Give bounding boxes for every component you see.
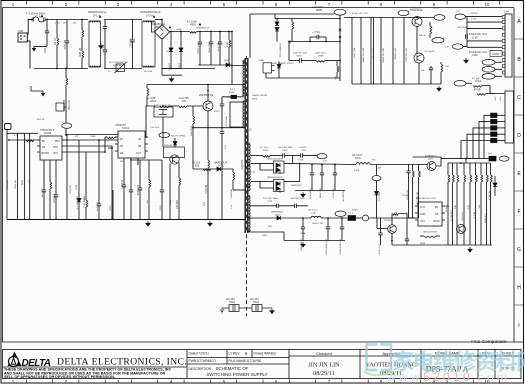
capacitor C11 (98, 140, 100, 204)
connector CN7 (5, 124, 12, 130)
wire (376, 218, 378, 229)
wire N line (34, 68, 88, 70)
resistor R05A (190, 32, 197, 34)
capacitor C15 (161, 160, 163, 190)
svg-text:4.2.7: 4.2.7 (230, 89, 236, 91)
svg-text:F1:A: F1:A (35, 14, 41, 18)
svg-text:SBR10U45x(F/F): SBR10U45x(F/F) (267, 159, 283, 161)
resistor divider (463, 163, 465, 175)
resistor R906 (192, 106, 194, 116)
svg-text:FB: FB (138, 139, 141, 141)
svg-text:C4TC: C4TC (218, 166, 224, 168)
svg-text:C60 470uF: C60 470uF (457, 27, 468, 29)
svg-text:R8 1.2K: R8 1.2K (37, 119, 45, 121)
wire (467, 21, 502, 23)
resistor R70A (473, 86, 482, 88)
svg-text:PRO: PRO (55, 141, 60, 143)
diode D473 (278, 61, 280, 64)
svg-text:VCC: VCC (420, 221, 425, 223)
svg-text:I: I (518, 323, 519, 329)
wire (275, 18, 340, 20)
wire +5V out rail (413, 157, 442, 159)
svg-text:SWITCHING POWER SUPPLY: SWITCHING POWER SUPPLY (206, 372, 267, 377)
wire (187, 105, 203, 107)
svg-text:R9O3: R9O3 (214, 111, 220, 113)
svg-text:G: G (517, 247, 521, 253)
wire Q1 source (207, 111, 209, 160)
wire Q1 drain (207, 85, 209, 102)
wire (441, 158, 489, 160)
svg-text:TMPG45O2: TMPG45O2 (410, 8, 422, 10)
capacitor C30 (430, 66, 432, 68)
capacitor C907 (43, 160, 45, 190)
diode D51 black (231, 95, 237, 98)
ground (99, 44, 103, 49)
svg-text:1uF 250V SMD: 1uF 250V SMD (263, 198, 278, 200)
svg-text:BU: BU (42, 141, 46, 143)
connector CN4 (505, 14, 512, 77)
svg-text:. c o m: . c o m (471, 370, 507, 384)
svg-text:3A 1/4W 36O: 3A 1/4W 36O (342, 190, 345, 202)
ground (146, 221, 150, 226)
svg-text:1.5K 1/2W: 1.5K 1/2W (63, 99, 66, 111)
wire mid rail (289, 41, 340, 43)
wire (467, 46, 502, 48)
svg-text:CB: CB (138, 146, 142, 148)
capacitor C3 (104, 20, 106, 27)
capacitor (334, 165, 336, 174)
wire (418, 63, 420, 84)
svg-text:222 1KV: 222 1KV (226, 299, 235, 301)
resistor divider (456, 163, 458, 175)
svg-text:1uF 250V SMD: 1uF 250V SMD (290, 198, 305, 200)
svg-text:C: C (517, 95, 521, 101)
capacitor C105 (380, 218, 382, 233)
resistor R19 sense (208, 160, 210, 168)
svg-text:C..1F: C..1F (472, 37, 478, 39)
resistor R14 (107, 137, 115, 139)
capacitor C1 earth (46, 20, 48, 32)
svg-text:CN4: CN4 (504, 11, 509, 14)
ground (301, 242, 305, 247)
wire aux return (193, 127, 245, 129)
capacitor C908 (55, 160, 57, 195)
capacitor (341, 218, 343, 227)
diode D7 (173, 142, 177, 145)
resistor R52 (412, 165, 414, 172)
svg-text:SBR10U45: SBR10U45 (291, 185, 302, 187)
svg-text:DESCRIPTION:: DESCRIPTION: (189, 367, 213, 371)
wire (6, 133, 8, 219)
connector CN3 pins (491, 113, 498, 118)
svg-text:680uF 10v C6B: 680uF 10v C6B (363, 47, 365, 62)
diode D101 dual rectifier (274, 180, 285, 193)
wire to control (65, 107, 67, 123)
wire (260, 180, 274, 182)
svg-text:1uF 250V SMD: 1uF 250V SMD (278, 147, 293, 149)
wire (162, 117, 164, 147)
capacitor (321, 165, 323, 174)
svg-text:C1F2: C1F2 (472, 55, 478, 57)
wire (7, 130, 38, 134)
capacitor C1F1 (466, 34, 468, 38)
wire snubber branch (222, 85, 243, 97)
transistor Q5 (412, 17, 422, 27)
wire (108, 148, 112, 220)
svg-text:FILE NAME:D77AP88: FILE NAME:D77AP88 (229, 359, 262, 363)
svg-text:C45 47uF: C45 47uF (462, 211, 464, 221)
wire (23, 133, 25, 219)
wire (130, 159, 162, 161)
svg-text:100K 5x10: 100K 5x10 (315, 52, 326, 54)
svg-text:CR-3-3-O: CR-3-3-O (352, 155, 362, 157)
svg-text:16uF 50v 5x11: 16uF 50v 5x11 (293, 52, 308, 54)
capacitor C4 (132, 20, 134, 41)
wire (370, 164, 427, 166)
wire (65, 151, 105, 153)
wire (270, 155, 283, 157)
wire (274, 14, 276, 19)
transistor Q50 pass (427, 162, 436, 171)
resistor R120 (263, 156, 270, 158)
wire (231, 66, 233, 85)
svg-text:S-1 10K: S-1 10K (396, 210, 398, 218)
resistor R24 (291, 19, 293, 23)
svg-text:08/29/11: 08/29/11 (313, 370, 335, 377)
svg-text:CR-3-3-O: CR-3-3-O (308, 210, 318, 212)
wire (251, 180, 260, 182)
svg-text:1M R1: 1M R1 (54, 37, 57, 45)
capacitor C7A4 (317, 35, 319, 39)
svg-text:C16 47uF: C16 47uF (150, 127, 160, 129)
svg-text:PC1O5: PC1O5 (402, 195, 410, 197)
svg-text:FMG-36B/LTD: FMG-36B/LTD (280, 43, 282, 57)
svg-text:R6 150K: R6 150K (144, 71, 153, 73)
wire (486, 93, 505, 95)
wire (104, 137, 106, 152)
svg-text:680uF 25V: 680uF 25V (320, 187, 322, 198)
svg-text:10K: 10K (445, 66, 449, 68)
wire (169, 105, 179, 107)
wire gate drive (145, 106, 155, 137)
choke LF1 (89, 21, 101, 67)
svg-text:R7OB: R7OB (474, 90, 481, 92)
op-amp IC101 supervisor (415, 202, 445, 226)
node VCC oval (62, 123, 72, 128)
watermark url (386, 370, 507, 384)
svg-text:D45C: D45C (275, 215, 281, 217)
svg-text:4.7K: 4.7K (468, 204, 470, 209)
capacitor C128 (277, 204, 279, 208)
ground (437, 86, 441, 91)
svg-text:Drawg:WANBLI: Drawg:WANBLI (254, 352, 277, 356)
svg-text:Q45O: Q45O (433, 8, 439, 10)
svg-text:CB: CB (42, 147, 46, 149)
node oval (335, 211, 346, 216)
svg-text:D9O1: D9O1 (252, 99, 258, 101)
svg-text:102M: 102M (170, 200, 172, 205)
svg-text:10: 10 (485, 2, 490, 7)
wire aux tap (230, 101, 244, 103)
svg-text:S-1 1M R9O5: S-1 1M R9O5 (77, 195, 79, 209)
wire (260, 163, 274, 170)
node oval (432, 38, 444, 43)
resistor R20 (178, 163, 180, 179)
Y-capacitor C902 (239, 305, 272, 312)
svg-text:AS431/A-7x0 IC1O1: AS431/A-7x0 IC1O1 (416, 197, 437, 200)
node oval +3.3V (454, 81, 466, 87)
capacitor (302, 218, 304, 227)
resistor R18 (147, 88, 149, 96)
resistor R13C (424, 236, 436, 238)
svg-text:C9O2 1OuF: C9O2 1OuF (198, 41, 200, 53)
svg-text:R902: R902 (22, 179, 24, 185)
svg-text:C35O: C35O (296, 55, 302, 57)
wire (155, 19, 162, 21)
svg-text:223M: 223M (84, 196, 86, 201)
svg-text:C903 104: C903 104 (15, 179, 17, 189)
resistor R30 (429, 22, 431, 26)
wire T1 top to bias (250, 13, 334, 15)
capacitor C62 comb (370, 18, 372, 85)
wire (104, 68, 142, 70)
wire bridge minus (162, 74, 182, 76)
svg-text:CN6: CN6 (18, 30, 23, 33)
ground (468, 247, 472, 252)
svg-text:R45 1K: R45 1K (419, 35, 427, 37)
svg-text:470uF 16: 470uF 16 (489, 190, 491, 200)
svg-text:LY.REV.: LY.REV. (229, 352, 241, 356)
wire (467, 40, 502, 42)
capacitor C64 comb (380, 18, 382, 85)
svg-text:GL556: GL556 (492, 54, 500, 56)
resistor R10 (26, 140, 34, 142)
svg-text:2.2K: 2.2K (14, 135, 19, 137)
svg-text:1OuF 50v: 1OuF 50v (218, 41, 220, 52)
svg-text:3A 1: 3A 1 (488, 152, 493, 155)
svg-text:C5A: C5A (166, 50, 171, 53)
wire (399, 214, 408, 240)
svg-text:C45A: C45A (300, 232, 306, 235)
svg-text:CX8A: CX8A (258, 59, 264, 62)
svg-text:IC9O2: IC9O2 (44, 132, 52, 135)
ground (301, 192, 305, 197)
svg-text:BD1:A: BD1:A (156, 26, 163, 29)
svg-text:S-1 1K: S-1 1K (474, 211, 476, 218)
capacitor C52 (408, 165, 410, 172)
wire (65, 146, 112, 148)
svg-text:680uF 10v C6D: 680uF 10v C6D (383, 48, 385, 63)
svg-text:* No Component: * No Component (471, 339, 507, 345)
node oval (398, 10, 409, 15)
capacitor (311, 165, 313, 174)
op-amp IC902 (37, 136, 65, 160)
zener ZD10 (376, 181, 378, 192)
svg-text:DELTA ELECTRONICS, INC.: DELTA ELECTRONICS, INC. (57, 357, 187, 368)
ground (169, 77, 173, 82)
svg-text:0.015: 0.015 (471, 19, 477, 21)
svg-text:103M: 103M (90, 136, 95, 138)
resistor R105 (393, 214, 399, 216)
svg-text:VDPRO: VDPRO (41, 153, 49, 155)
svg-text:w w w .: w w w . (386, 370, 426, 384)
capacitor C126 (283, 153, 285, 157)
svg-text:R91O: R91O (110, 205, 112, 211)
svg-text:PS2561: PS2561 (384, 220, 392, 222)
capacitor C35O (300, 58, 302, 62)
capacitor C129 (295, 204, 297, 208)
wire (104, 19, 142, 21)
svg-text:R17: R17 (182, 100, 187, 103)
diode D47 (493, 183, 497, 186)
wire (65, 134, 118, 136)
transformer T1 primary winding (243, 60, 245, 96)
svg-text:5 2 0 1 0: 5 2 0 1 0 (423, 370, 470, 384)
svg-text:C9O5: C9O5 (226, 97, 232, 99)
transistor Q2 (164, 147, 185, 158)
wire (467, 27, 502, 29)
resistor divider (475, 163, 477, 175)
svg-text:C1O5 4.7uF: C1O5 4.7uF (379, 243, 381, 255)
zener ZD1 (276, 19, 278, 23)
wire (112, 190, 114, 220)
node oval GLDA (482, 60, 495, 66)
inductor L10O (356, 163, 370, 165)
svg-text:474K C1: 474K C1 (44, 43, 47, 53)
wire (321, 217, 347, 219)
svg-text:D: D (517, 133, 521, 139)
resistor divider (486, 163, 488, 175)
diode D45C (277, 216, 280, 220)
node pad (363, 215, 369, 221)
svg-text:R22: R22 (195, 166, 200, 168)
capacitor C905 (221, 97, 223, 104)
svg-text:S-1 10K: S-1 10K (192, 163, 201, 165)
svg-text:470uF 25V: 470uF 25V (333, 187, 335, 198)
diode D5 gate clamp box (154, 107, 173, 117)
wire (66, 135, 68, 220)
wire (162, 68, 215, 70)
svg-text:VDD: VDD (53, 147, 58, 149)
diode D8 (217, 167, 220, 171)
svg-text:10K: 10K (455, 204, 457, 208)
wire to T1 pin1 (232, 32, 245, 66)
resistor R907 (49, 160, 51, 182)
svg-text:R13E: R13E (420, 243, 426, 245)
capacitor C66 comb (403, 18, 405, 85)
svg-text:D9O2: D9O2 (179, 62, 181, 68)
wire (251, 162, 274, 164)
resistor divider (452, 163, 454, 175)
node oval (317, 154, 327, 159)
svg-text:1uF 50v/10: 1uF 50v/10 (424, 51, 435, 53)
wire comb top rail (344, 17, 412, 19)
fuse F1 (33, 17, 44, 22)
watermark hanzi (393, 350, 525, 371)
wire (482, 86, 495, 94)
svg-text:SELL OF APPARATUSES OR DEVICES: SELL OF APPARATUSES OR DEVICES WITHOUT P… (4, 375, 115, 379)
varistor MOV1 (115, 63, 127, 74)
svg-text:T1:A: T1:A (250, 171, 255, 174)
svg-text:222 1KV: 222 1KV (250, 299, 259, 301)
node oval GLDA (482, 67, 495, 73)
svg-text:L10O: L10O (355, 158, 361, 160)
wire (436, 159, 441, 166)
svg-text:R901 10K: R901 10K (7, 179, 9, 189)
connector CN6 AC inlet (18, 20, 33, 69)
svg-text:0.22 2W: 0.22 2W (206, 184, 208, 193)
diode D2 (180, 32, 182, 49)
wire (463, 46, 467, 48)
wire (250, 232, 284, 241)
svg-text:Q5O: Q5O (428, 159, 433, 161)
resistor divider (490, 163, 492, 175)
svg-text:C45D: C45D (262, 235, 268, 237)
svg-text:1uF: 1uF (421, 70, 425, 72)
svg-text:VBR040AuF: VBR040AuF (271, 211, 284, 214)
node oval (500, 156, 510, 161)
svg-text:C92O: C92O (160, 205, 162, 211)
svg-text:C12A: C12A (298, 159, 304, 162)
transformer T1 aux winding (243, 101, 245, 128)
diode D1 (170, 32, 172, 49)
svg-text:C10x 680uF: C10x 680uF (310, 187, 312, 199)
resistor R63C (337, 66, 339, 72)
svg-text:GND: GND (420, 214, 425, 216)
wire (356, 217, 363, 219)
svg-text:4Wh(DP)/10mA: 4Wh(DP)/10mA (88, 10, 106, 14)
svg-text:10K R20: 10K R20 (177, 199, 179, 209)
svg-text:PGND: PGND (433, 221, 440, 223)
wire (280, 217, 311, 219)
resistor R31 (440, 62, 442, 64)
capacitor C14 (139, 160, 141, 188)
capacitor C8 bulk (219, 32, 221, 43)
resistor R17 (179, 106, 187, 108)
node oval zener tap (372, 176, 381, 181)
transistor Q45 (457, 225, 466, 234)
svg-text:222M C4: 222M C4 (130, 37, 133, 47)
resistor R23 (233, 172, 235, 180)
diode D903 (78, 140, 80, 199)
transformer T1 secondary winding 1 (249, 144, 251, 191)
svg-text:LF2:A: LF2:A (146, 14, 153, 18)
wire IC902 input (9, 139, 37, 141)
wire (278, 205, 294, 207)
svg-text:C9O2: C9O2 (253, 302, 260, 304)
svg-text:474K: 474K (55, 23, 60, 25)
resistor R9 bleeder (65, 69, 67, 79)
svg-text:470uF 16v C6F: 470uF 16v C6F (406, 47, 408, 62)
svg-text:C12I: C12I (301, 150, 306, 152)
connector JP1 (56, 103, 66, 111)
svg-text:R10A: R10A (354, 169, 360, 172)
svg-text:7.4x05/3W: 7.4x05/3W (231, 188, 233, 199)
svg-text:1RO2: 1RO2 (150, 100, 157, 103)
svg-text:Checked: Checked (316, 351, 332, 356)
svg-text:R9O8 10K: R9O8 10K (54, 192, 56, 202)
node oval (434, 15, 445, 21)
svg-text:R905 1M: R905 1M (70, 185, 72, 194)
wire (376, 165, 378, 176)
node oval VB (334, 9, 346, 15)
wire (292, 156, 294, 164)
capacitor C61 comb (360, 18, 362, 85)
wire (448, 162, 491, 164)
node oval N45 (159, 133, 170, 138)
svg-text:47uF C14: 47uF C14 (138, 184, 140, 195)
resistor R53 (418, 165, 420, 172)
